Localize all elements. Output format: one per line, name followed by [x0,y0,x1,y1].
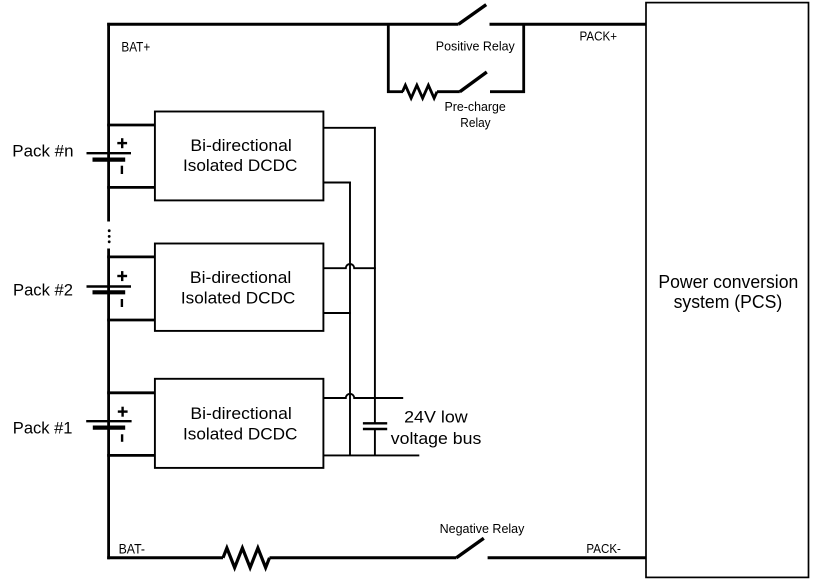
wire DCDC #2 out bottom to 24V- bus [323,312,351,314]
svg-text:BAT-: BAT- [119,540,146,556]
svg-text:voltage bus: voltage bus [391,429,482,448]
wire DCDC #1 out bottom (24V return rail) [323,454,419,456]
wire PACK+ rail (right of Positive Relay) [490,23,647,26]
svg-text:Relay: Relay [460,115,491,130]
relay Positive Relay blade [459,5,487,25]
wire Pack #n to DCDC bottom [107,186,156,189]
resistor BAT- rail [223,548,270,568]
svg-text:Pre-charge: Pre-charge [445,99,506,114]
svg-text:Bi-directional: Bi-directional [190,268,291,287]
wire 24V- vertical bus [349,182,351,456]
ellipsis dots (stack continuation) [108,229,111,232]
svg-text:Negative Relay: Negative Relay [440,521,525,536]
wire PACK- rail (right of Negative Relay) [488,556,647,559]
battery Pack #1 [86,407,131,442]
svg-text:Pack #n: Pack #n [12,143,73,161]
wire DCDC #n out top to 24V+ bus [323,127,375,129]
wire BAT+ top rail (left of Positive Relay) [107,23,458,26]
capacitor 24V bus (top plate) [363,422,387,424]
wire pre-charge branch right riser [522,23,525,93]
wire 24V+ vertical bus (below capacitor) [374,429,376,455]
DCDC converter box #1 [155,379,324,468]
svg-text:Isolated DCDC: Isolated DCDC [183,425,297,444]
wire left battery bus lower segment [107,249,110,560]
svg-text:Pack #1: Pack #1 [13,420,73,438]
svg-text:Power conversion: Power conversion [658,271,798,292]
svg-text:24V low: 24V low [404,407,468,426]
svg-text:Bi-directional: Bi-directional [190,136,291,155]
relay Pre-charge blade [460,72,487,92]
svg-text:Positive Relay: Positive Relay [436,39,515,54]
wire pre-charge branch left riser [387,23,390,93]
wire resistor to pre-charge relay [437,90,460,93]
svg-text:Isolated DCDC: Isolated DCDC [183,156,297,175]
wire 24V+ vertical bus (upper) [374,127,376,423]
wire BAT- rail (resistor to Negative Relay) [270,556,457,559]
DCDC converter box #n [155,112,324,201]
svg-text:Bi-directional: Bi-directional [190,404,291,423]
resistor pre-charge [403,85,438,98]
PCS box [646,3,809,578]
wire DCDC #n out bottom to 24V- bus [323,182,351,184]
svg-text:PACK-: PACK- [586,542,621,556]
battery Pack #n [87,138,132,174]
svg-text:PACK+: PACK+ [580,30,618,44]
wire Pack #2 to DCDC top [107,255,156,258]
DCDC converter box #2 [155,244,324,331]
wire pre-charge branch bottom-left [387,90,403,93]
wire left battery bus upper segment [107,23,110,222]
wire BAT- rail (left of resistor) [107,556,223,559]
wire DCDC #1 out top to 24V+ bus (hop over 24V- bus) [323,394,403,398]
wire Pack #1 to DCDC top [107,391,156,394]
svg-text:Pack #2: Pack #2 [13,281,73,299]
wire Pack #2 to DCDC bottom [107,319,156,322]
wire DCDC #2 out top to 24V+ bus (hop over 24V- bus) [323,264,375,268]
capacitor 24V bus (bottom plate) [363,428,387,430]
wire Pack #1 to DCDC bottom [107,454,156,457]
relay Negative Relay blade [456,538,483,558]
wire pre-charge branch bottom-right [490,90,525,93]
wire Pack #n to DCDC top [107,124,156,127]
battery Pack #2 [87,271,132,307]
svg-text:Isolated DCDC: Isolated DCDC [181,289,295,308]
svg-text:BAT+: BAT+ [121,39,150,55]
svg-text:system (PCS): system (PCS) [674,291,783,312]
